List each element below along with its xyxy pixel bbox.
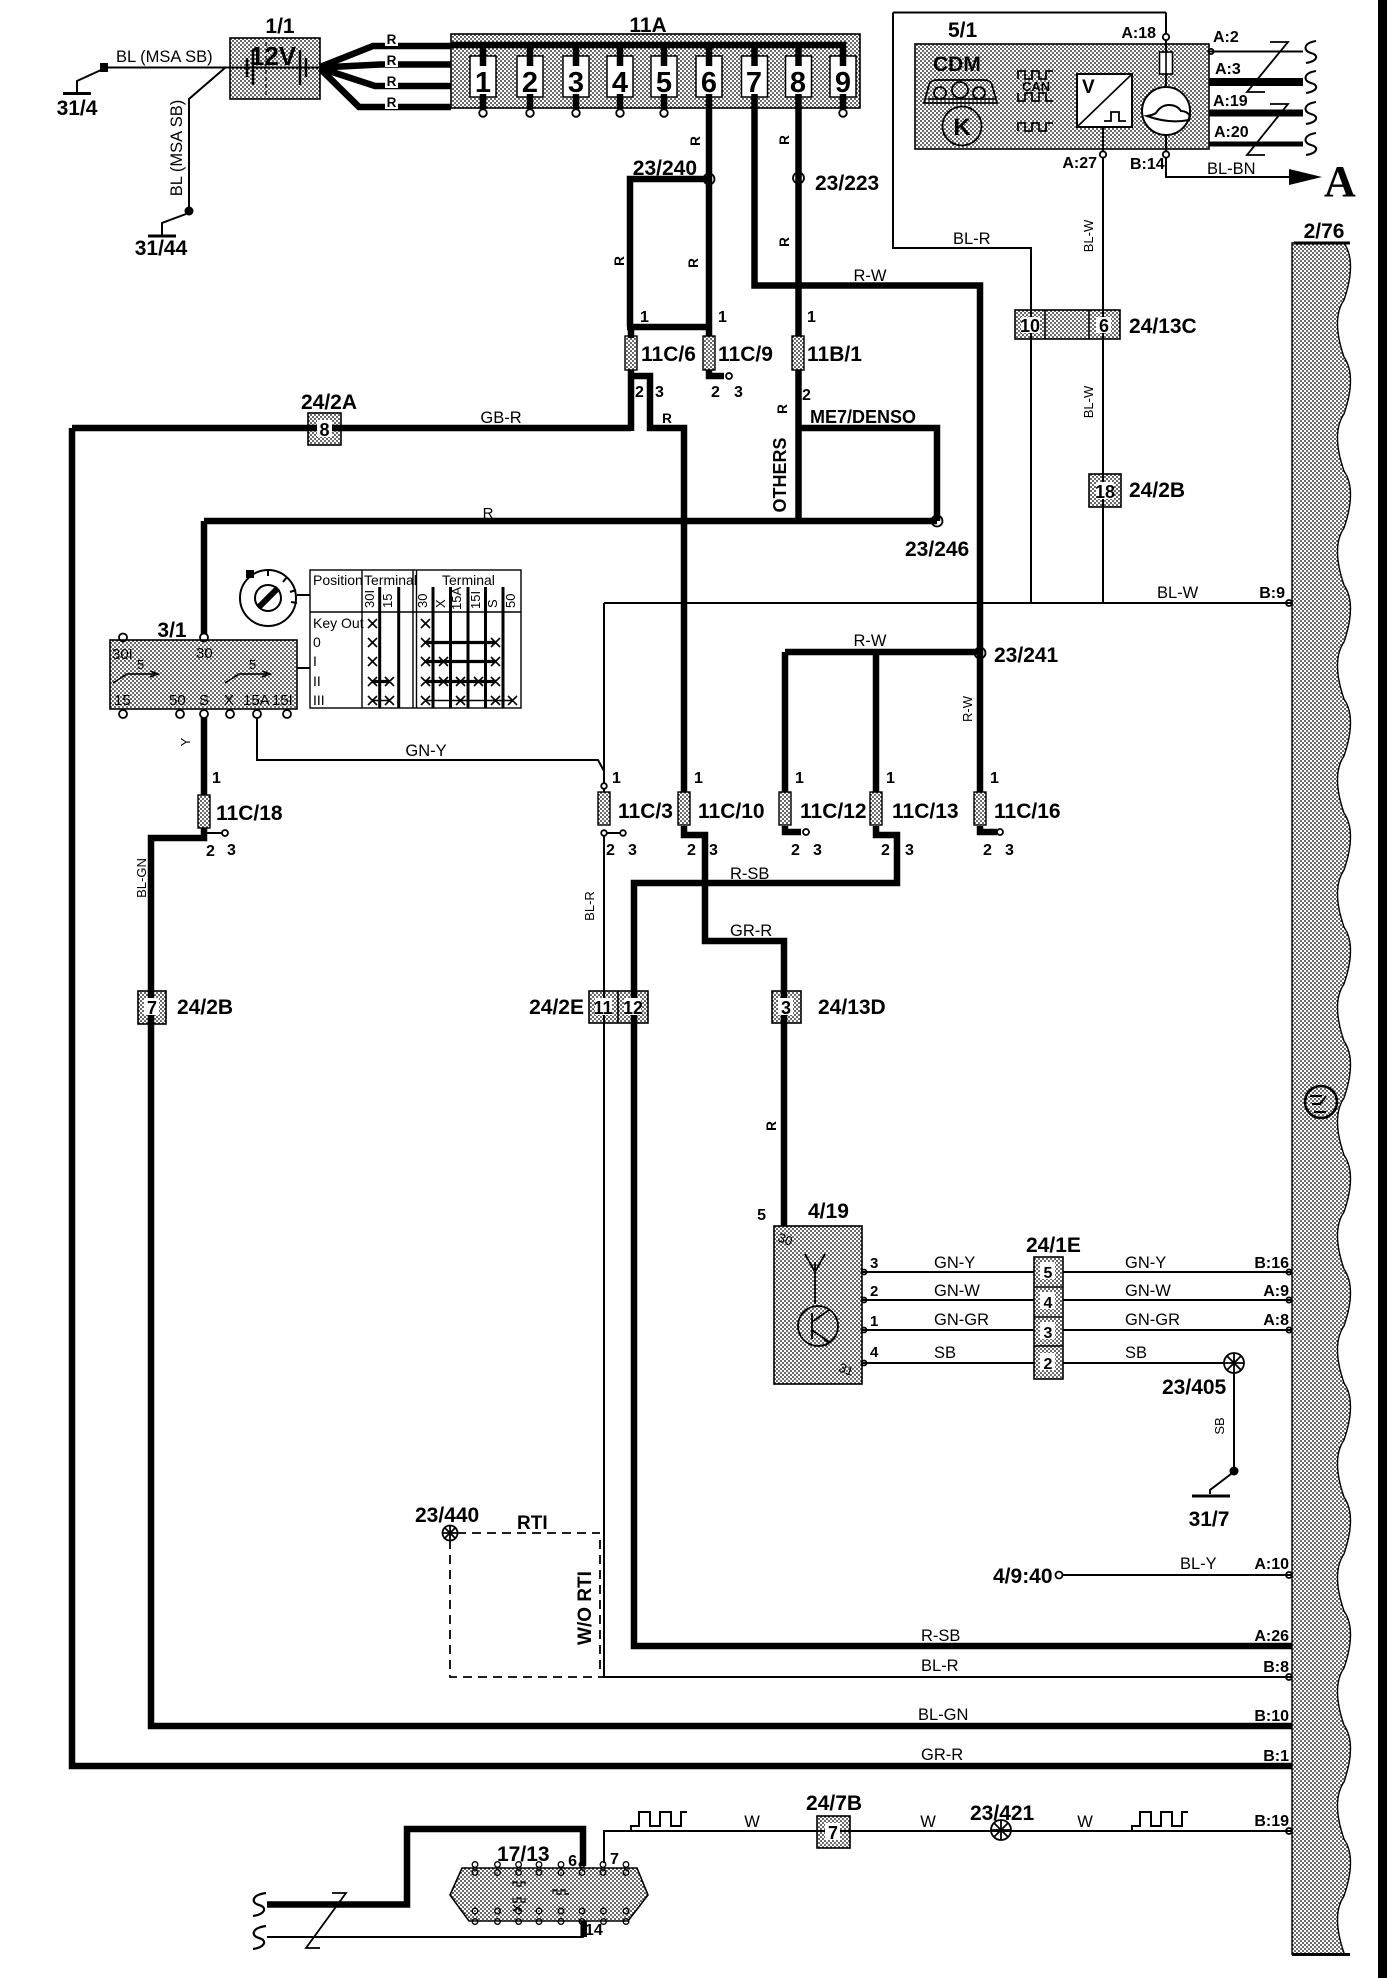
svg-text:15A: 15A xyxy=(449,587,464,610)
svg-text:3: 3 xyxy=(734,384,743,401)
svg-text:2: 2 xyxy=(870,1283,878,1300)
svg-text:0: 0 xyxy=(313,634,321,650)
svg-text:R: R xyxy=(686,258,701,268)
svg-text:1: 1 xyxy=(870,1313,878,1330)
svg-text:V: V xyxy=(1082,77,1095,98)
svg-text:B:8: B:8 xyxy=(1263,1659,1289,1676)
svg-text:A:9: A:9 xyxy=(1263,1283,1289,1300)
svg-text:30: 30 xyxy=(196,645,213,662)
svg-text:BL-GN: BL-GN xyxy=(918,1706,968,1724)
svg-text:15I: 15I xyxy=(468,591,483,609)
svg-text:R: R xyxy=(688,136,703,146)
svg-text:BL-Y: BL-Y xyxy=(1180,1555,1217,1573)
svg-text:2: 2 xyxy=(206,843,215,860)
svg-text:2: 2 xyxy=(983,842,992,859)
svg-text:ME7/DENSO: ME7/DENSO xyxy=(810,407,916,427)
svg-text:R: R xyxy=(777,237,792,247)
svg-text:2: 2 xyxy=(711,384,720,401)
svg-text:R: R xyxy=(612,256,627,266)
svg-text:24/2A: 24/2A xyxy=(301,391,357,414)
svg-text:B:14: B:14 xyxy=(1130,156,1165,173)
svg-text:BL-BN: BL-BN xyxy=(1207,160,1256,178)
svg-text:OTHERS: OTHERS xyxy=(770,437,790,512)
svg-text:2: 2 xyxy=(522,67,538,99)
svg-text:12: 12 xyxy=(623,998,643,1018)
svg-text:R-W: R-W xyxy=(960,695,975,722)
svg-text:30: 30 xyxy=(415,594,430,608)
svg-text:GN-W: GN-W xyxy=(934,1282,980,1300)
svg-text:A:27: A:27 xyxy=(1062,155,1097,172)
svg-text:3: 3 xyxy=(905,842,914,859)
svg-text:B:9: B:9 xyxy=(1259,585,1285,602)
svg-text:23/246: 23/246 xyxy=(905,538,969,561)
svg-text:2: 2 xyxy=(635,384,644,401)
svg-text:W/O RTI: W/O RTI xyxy=(575,1571,596,1645)
svg-text:R-W: R-W xyxy=(854,267,887,285)
svg-text:31/4: 31/4 xyxy=(57,97,98,120)
svg-text:5/1: 5/1 xyxy=(948,19,978,42)
svg-text:11A: 11A xyxy=(629,14,666,37)
svg-text:SB: SB xyxy=(1212,1417,1227,1434)
svg-text:R-SB: R-SB xyxy=(921,1627,960,1645)
svg-text:4: 4 xyxy=(870,1344,879,1361)
svg-text:7: 7 xyxy=(610,1851,619,1868)
svg-text:2: 2 xyxy=(791,842,800,859)
svg-text:1: 1 xyxy=(612,770,621,787)
svg-text:Terminal: Terminal xyxy=(364,572,417,588)
svg-text:A:19: A:19 xyxy=(1213,93,1248,110)
svg-text:11C/12: 11C/12 xyxy=(800,800,867,823)
svg-text:S: S xyxy=(199,692,209,709)
svg-text:GN-Y: GN-Y xyxy=(405,742,446,760)
svg-text:1: 1 xyxy=(640,309,649,326)
svg-text:GB-R: GB-R xyxy=(480,409,521,427)
svg-text:GN-GR: GN-GR xyxy=(934,1311,989,1329)
svg-text:11C/16: 11C/16 xyxy=(994,800,1061,823)
svg-text:R: R xyxy=(777,135,792,145)
svg-text:15: 15 xyxy=(114,692,131,709)
svg-text:1/1: 1/1 xyxy=(265,15,295,38)
svg-text:GR-R: GR-R xyxy=(921,1746,963,1764)
svg-text:5: 5 xyxy=(656,67,672,99)
svg-text:1: 1 xyxy=(718,309,727,326)
svg-text:R: R xyxy=(387,74,397,89)
svg-text:50: 50 xyxy=(169,692,186,709)
svg-text:Position: Position xyxy=(313,572,363,588)
svg-text:I: I xyxy=(313,653,317,669)
svg-text:III: III xyxy=(313,692,325,708)
svg-text:2/76: 2/76 xyxy=(1304,220,1345,243)
svg-text:CAN: CAN xyxy=(1022,79,1050,94)
svg-text:3: 3 xyxy=(1005,842,1014,859)
svg-text:3: 3 xyxy=(813,842,822,859)
svg-text:12V: 12V xyxy=(250,41,297,71)
svg-text:W: W xyxy=(744,1813,760,1831)
svg-text:BL (MSA SB): BL (MSA SB) xyxy=(168,100,186,197)
svg-text:11: 11 xyxy=(593,998,612,1018)
svg-text:24/1E: 24/1E xyxy=(1026,1234,1081,1257)
svg-text:R: R xyxy=(662,411,672,426)
svg-text:24/2E: 24/2E xyxy=(529,996,584,1019)
svg-text:23/440: 23/440 xyxy=(415,1504,479,1527)
svg-text:Y: Y xyxy=(178,737,193,746)
svg-text:Key Out: Key Out xyxy=(313,615,364,631)
svg-text:3: 3 xyxy=(628,842,637,859)
svg-text:Terminal: Terminal xyxy=(442,572,495,588)
svg-text:1: 1 xyxy=(795,770,804,787)
svg-text:3: 3 xyxy=(655,384,664,401)
svg-text:A:8: A:8 xyxy=(1263,1312,1289,1329)
svg-text:3: 3 xyxy=(568,67,584,99)
svg-text:R: R xyxy=(764,1121,779,1131)
svg-text:GN-W: GN-W xyxy=(1125,1282,1171,1300)
svg-text:A:26: A:26 xyxy=(1254,1628,1289,1645)
svg-text:BL-R: BL-R xyxy=(921,1657,959,1675)
svg-text:6: 6 xyxy=(701,67,717,99)
svg-text:1: 1 xyxy=(212,770,221,787)
svg-text:11C/10: 11C/10 xyxy=(698,800,765,823)
svg-text:23/223: 23/223 xyxy=(815,172,879,195)
svg-text:2: 2 xyxy=(802,387,811,404)
svg-text:X: X xyxy=(433,599,448,608)
svg-text:23/421: 23/421 xyxy=(970,1802,1035,1825)
svg-text:15A: 15A xyxy=(243,692,270,709)
svg-text:3: 3 xyxy=(709,842,718,859)
svg-text:GN-GR: GN-GR xyxy=(1125,1311,1180,1329)
svg-text:R-SB: R-SB xyxy=(730,865,769,883)
svg-text:RTI: RTI xyxy=(517,1513,548,1534)
svg-text:2: 2 xyxy=(881,842,890,859)
svg-text:B:10: B:10 xyxy=(1254,1708,1289,1725)
svg-text:2: 2 xyxy=(687,842,696,859)
svg-text:BL-GN: BL-GN xyxy=(134,858,149,898)
svg-text:5: 5 xyxy=(1044,1265,1053,1282)
svg-text:15: 15 xyxy=(380,594,395,608)
svg-text:W: W xyxy=(1077,1813,1093,1831)
svg-text:1: 1 xyxy=(807,309,816,326)
svg-text:X: X xyxy=(224,692,234,709)
svg-text:3: 3 xyxy=(1044,1325,1053,1342)
svg-text:11B/1: 11B/1 xyxy=(807,343,862,366)
svg-text:A: A xyxy=(1324,157,1356,206)
svg-text:SB: SB xyxy=(934,1344,956,1362)
svg-text:II: II xyxy=(313,673,321,689)
svg-text:K: K xyxy=(953,114,971,141)
svg-text:6: 6 xyxy=(568,1853,577,1870)
svg-text:BL-W: BL-W xyxy=(1081,219,1096,252)
svg-text:1: 1 xyxy=(990,770,999,787)
svg-text:3: 3 xyxy=(870,1255,878,1272)
svg-text:1: 1 xyxy=(475,67,491,99)
svg-text:B:1: B:1 xyxy=(1263,1748,1289,1765)
svg-text:SB: SB xyxy=(1125,1344,1147,1362)
svg-text:9: 9 xyxy=(835,67,851,99)
svg-text:15I: 15I xyxy=(272,692,293,709)
svg-text:R: R xyxy=(387,53,397,68)
svg-text:BL-R: BL-R xyxy=(582,891,597,921)
svg-text:S: S xyxy=(485,599,500,608)
svg-text:BL (MSA SB): BL (MSA SB) xyxy=(116,48,213,66)
svg-text:23/241: 23/241 xyxy=(994,644,1059,667)
svg-text:8: 8 xyxy=(790,67,806,99)
svg-text:24/7B: 24/7B xyxy=(806,1792,862,1815)
svg-text:BL-R: BL-R xyxy=(953,230,991,248)
svg-text:B:19: B:19 xyxy=(1254,1813,1289,1830)
svg-text:4/19: 4/19 xyxy=(808,1200,849,1223)
svg-text:5: 5 xyxy=(137,657,144,672)
svg-text:R: R xyxy=(387,95,397,110)
svg-text:R: R xyxy=(483,505,494,522)
svg-text:24/13C: 24/13C xyxy=(1129,315,1197,338)
svg-text:A:20: A:20 xyxy=(1214,124,1249,141)
svg-text:1: 1 xyxy=(886,770,895,787)
svg-text:5: 5 xyxy=(249,657,256,672)
svg-text:R: R xyxy=(387,32,397,47)
svg-text:18: 18 xyxy=(1095,482,1115,502)
svg-text:23/405: 23/405 xyxy=(1162,1376,1227,1399)
svg-text:30I: 30I xyxy=(112,646,133,663)
svg-text:50: 50 xyxy=(503,594,518,608)
svg-text:3: 3 xyxy=(781,998,791,1018)
svg-text:11C/13: 11C/13 xyxy=(892,800,959,823)
svg-text:W: W xyxy=(920,1813,936,1831)
svg-text:23/240: 23/240 xyxy=(633,157,697,180)
svg-text:GR-R: GR-R xyxy=(730,922,772,940)
svg-text:R-W: R-W xyxy=(854,632,887,650)
svg-text:7: 7 xyxy=(746,67,762,99)
svg-text:31/44: 31/44 xyxy=(135,237,188,260)
svg-text:24/2B: 24/2B xyxy=(177,996,233,1019)
svg-text:1: 1 xyxy=(694,770,703,787)
svg-text:7: 7 xyxy=(828,1823,838,1843)
svg-text:A:3: A:3 xyxy=(1215,61,1241,78)
svg-text:6: 6 xyxy=(1099,316,1109,336)
svg-text:31/7: 31/7 xyxy=(1189,1508,1230,1531)
svg-text:BL-W: BL-W xyxy=(1157,584,1199,602)
svg-text:3: 3 xyxy=(227,842,236,859)
svg-text:A:18: A:18 xyxy=(1121,25,1156,42)
svg-text:10: 10 xyxy=(1020,316,1040,336)
svg-text:30I: 30I xyxy=(362,590,377,608)
svg-text:GN-Y: GN-Y xyxy=(934,1254,975,1272)
svg-text:5: 5 xyxy=(757,1207,766,1224)
svg-text:24/13D: 24/13D xyxy=(818,996,886,1019)
svg-text:CDM: CDM xyxy=(933,53,981,76)
svg-text:B:16: B:16 xyxy=(1254,1255,1289,1272)
svg-text:4/9:40: 4/9:40 xyxy=(993,1565,1053,1588)
svg-text:BL-W: BL-W xyxy=(1081,385,1096,418)
svg-text:2: 2 xyxy=(606,842,615,859)
svg-text:11C/9: 11C/9 xyxy=(718,343,773,366)
svg-text:14: 14 xyxy=(585,1922,603,1939)
svg-text:11C/18: 11C/18 xyxy=(216,802,283,825)
svg-text:A:10: A:10 xyxy=(1254,1556,1289,1573)
svg-text:11C/6: 11C/6 xyxy=(641,343,696,366)
svg-text:2: 2 xyxy=(1044,1356,1053,1373)
svg-text:A:2: A:2 xyxy=(1213,29,1239,46)
svg-text:8: 8 xyxy=(319,420,329,440)
svg-text:GN-Y: GN-Y xyxy=(1125,1254,1166,1272)
svg-text:4: 4 xyxy=(1044,1295,1053,1312)
svg-text:3/1: 3/1 xyxy=(157,619,187,642)
svg-text:11C/3: 11C/3 xyxy=(618,800,673,823)
svg-text:24/2B: 24/2B xyxy=(1129,479,1185,502)
svg-text:R: R xyxy=(775,404,790,414)
svg-text:4: 4 xyxy=(612,67,628,99)
svg-text:7: 7 xyxy=(147,998,157,1018)
